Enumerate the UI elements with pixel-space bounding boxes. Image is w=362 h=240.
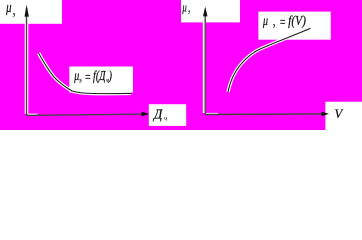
svg-text:μ: μ bbox=[73, 67, 79, 83]
right plot: white halo along y-axis bbox=[203, 9, 206, 113]
svg-text:μ: μ bbox=[5, 0, 12, 15]
right plot: curve white halo bbox=[228, 28, 311, 92]
right plot: y-axis label mu_e bbox=[182, 1, 191, 16]
left plot: white box behind x-axis label (Дч) bbox=[149, 104, 186, 126]
left plot: curve white halo bbox=[39, 53, 132, 94]
right plot: white box behind formula label bbox=[258, 12, 330, 40]
left plot: x-axis arrowhead bbox=[142, 112, 150, 117]
left plot: white halo inside axis corner bbox=[28, 114, 38, 115]
svg-text:э: э bbox=[79, 78, 82, 85]
left plot: formula mu_e = f(D_ch) bbox=[73, 67, 112, 85]
svg-text:э: э bbox=[273, 23, 276, 30]
svg-text:f(V): f(V) bbox=[288, 12, 306, 28]
svg-text:=: = bbox=[279, 14, 286, 30]
right plot: white halo inside axis corner bbox=[206, 113, 218, 114]
svg-text:э: э bbox=[13, 11, 15, 19]
right plot: formula mu_e = f(V) bbox=[262, 12, 306, 29]
left plot: y-axis line bbox=[26, 8, 28, 115]
left plot: y-axis label mu_e bbox=[5, 0, 15, 19]
left plot: x-axis line bbox=[27, 114, 143, 115]
right plot: white box behind y-axis label bbox=[181, 0, 240, 22]
right plot: white box behind x-axis label (V) bbox=[325, 102, 362, 130]
svg-text:f(Д: f(Д bbox=[93, 67, 107, 83]
left plot: y-axis arrowhead bbox=[25, 5, 29, 17]
left plot: white box behind formula label bbox=[69, 67, 133, 93]
svg-text:Д: Д bbox=[152, 106, 164, 121]
right plot: y-axis arrowhead bbox=[203, 7, 208, 17]
left plot: white box behind y-axis label bbox=[0, 0, 62, 24]
left plot: white halo along y-axis bbox=[25, 8, 29, 114]
right plot: y-axis line bbox=[204, 9, 206, 115]
left plot: curve bbox=[39, 53, 132, 94]
right plot: x-axis line bbox=[205, 113, 321, 116]
svg-text:=: = bbox=[84, 69, 91, 85]
svg-text:): ) bbox=[108, 67, 112, 83]
right plot: x-axis arrowhead bbox=[321, 112, 329, 117]
right plot: curve bbox=[228, 28, 311, 92]
svg-text:μ: μ bbox=[182, 1, 188, 15]
svg-text:μ: μ bbox=[262, 12, 268, 28]
